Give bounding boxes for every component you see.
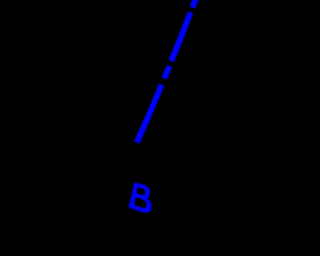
dashed line [137, 0, 203, 143]
label B [129, 183, 151, 212]
